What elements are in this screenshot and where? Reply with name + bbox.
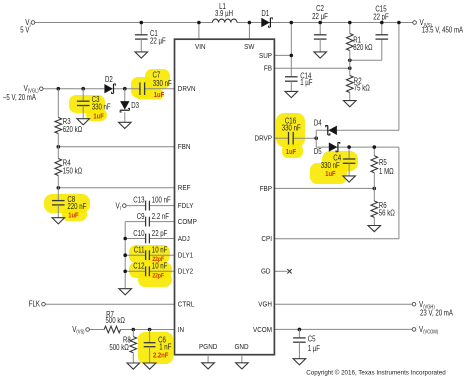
svg-text:DLY2: DLY2	[178, 267, 193, 276]
terminal VI reference	[116, 201, 127, 212]
diode D1	[261, 9, 272, 27]
svg-text:COMP: COMP	[178, 217, 197, 226]
capacitor C2	[312, 4, 328, 52]
resistor R2	[346, 68, 369, 100]
terminal VGL output	[3, 84, 43, 102]
svg-text:DLY1: DLY1	[178, 251, 193, 260]
svg-text:330 nF: 330 nF	[153, 79, 172, 88]
svg-text:1uF: 1uF	[68, 210, 79, 219]
svg-text:FB: FB	[264, 64, 272, 73]
capacitor C1	[135, 21, 166, 52]
svg-text:500 kΩ: 500 kΩ	[109, 343, 129, 352]
wire SUP pin	[274, 54, 293, 58]
svg-text:C10: C10	[133, 229, 145, 238]
svg-text:2.2 nF: 2.2 nF	[152, 212, 169, 221]
wire GD pin	[274, 270, 287, 272]
svg-text:1 µF: 1 µF	[308, 344, 320, 353]
svg-text:620 kΩ: 620 kΩ	[63, 125, 83, 134]
wire REF row	[57, 186, 175, 190]
svg-text:3.9 µH: 3.9 µH	[215, 9, 233, 18]
diode D3	[120, 89, 139, 123]
svg-text:VIN: VIN	[195, 42, 206, 51]
inductor L1	[212, 2, 237, 23]
svg-text:REF: REF	[178, 183, 191, 192]
svg-text:DRVP: DRVP	[255, 134, 273, 143]
svg-text:330 nF: 330 nF	[92, 102, 111, 111]
capacitor C8	[52, 188, 86, 220]
ground under C5	[293, 359, 306, 365]
wire FBP pin	[274, 187, 376, 191]
svg-text:1uF: 1uF	[93, 111, 104, 120]
svg-text:D1: D1	[261, 9, 269, 18]
node SW column	[248, 21, 252, 40]
copyright note	[306, 369, 446, 377]
highlight C3	[69, 95, 107, 121]
capacitor C11	[134, 246, 168, 263]
svg-text:CTRL: CTRL	[178, 300, 195, 309]
capacitor C7	[140, 70, 172, 99]
wire FB pin to R1/R2 junction	[274, 66, 351, 70]
resistor R5	[371, 145, 394, 188]
svg-text:150 kΩ: 150 kΩ	[63, 166, 83, 175]
svg-text:1uF: 1uF	[286, 147, 297, 156]
svg-text:Copyright © 2016, Texas Instru: Copyright © 2016, Texas Instruments Inco…	[306, 369, 446, 377]
resistor R7	[104, 310, 125, 333]
capacitor C14	[285, 72, 313, 92]
svg-text:1 µF: 1 µF	[300, 78, 312, 87]
terminal VS feedback	[72, 325, 89, 336]
ground under R8	[127, 363, 140, 369]
svg-text:SUP: SUP	[259, 51, 272, 60]
svg-text:C5: C5	[308, 335, 316, 344]
node VIN column	[197, 21, 201, 40]
wire DLY2 row	[123, 270, 174, 274]
no-connect X on GD	[287, 269, 291, 273]
svg-text:–5 V, 20 mA: –5 V, 20 mA	[3, 93, 37, 102]
svg-text:500 kΩ: 500 kΩ	[106, 316, 126, 325]
wire DRVN row	[43, 87, 174, 91]
highlight C4	[310, 151, 358, 184]
svg-text:CPI: CPI	[261, 234, 272, 243]
svg-text:C13: C13	[133, 195, 144, 204]
svg-text:GND: GND	[234, 342, 248, 351]
ground under C6	[143, 363, 156, 369]
highlight C6	[138, 332, 173, 364]
ground GND pin	[236, 355, 249, 369]
capacitor C12	[133, 262, 167, 280]
wire COMP row	[125, 221, 174, 223]
capacitor C4	[321, 145, 356, 178]
svg-text:D4: D4	[314, 119, 322, 128]
capacitor C3	[77, 89, 111, 121]
highlight C11	[129, 245, 170, 263]
svg-text:820 kΩ: 820 kΩ	[353, 43, 373, 52]
highlight C8	[44, 194, 90, 221]
svg-text:IN: IN	[178, 325, 184, 334]
terminal VGH output	[412, 300, 453, 318]
highlight C16	[276, 113, 305, 158]
wire IN row	[89, 328, 174, 332]
svg-text:1uF: 1uF	[325, 169, 336, 178]
svg-text:22 pF: 22 pF	[152, 229, 168, 238]
capacitor C15	[373, 5, 389, 39]
highlight C7	[131, 69, 170, 100]
svg-text:C9: C9	[137, 212, 145, 221]
svg-text:1uF: 1uF	[154, 90, 165, 99]
ground under D3	[119, 122, 132, 128]
ground under C2	[314, 52, 327, 58]
wire CTRL row	[45, 303, 174, 305]
ground under C14	[285, 91, 298, 97]
node charge pump	[315, 130, 317, 147]
diode D2	[104, 75, 115, 93]
svg-text:10 nF: 10 nF	[152, 246, 168, 255]
svg-text:FDLY: FDLY	[178, 201, 194, 210]
svg-text:GD: GD	[261, 267, 271, 276]
wire SUP vertical	[290, 21, 294, 77]
resistor R4	[55, 158, 82, 175]
wire FBN row	[57, 145, 175, 149]
svg-text:75 kΩ: 75 kΩ	[354, 84, 370, 93]
terminal FLK input	[29, 299, 46, 308]
wire VCOM row	[274, 328, 412, 332]
wire VGH row	[274, 303, 412, 305]
wire C15 bottom link	[348, 39, 382, 62]
ground under C3	[77, 119, 90, 125]
wire R4 column	[57, 147, 59, 188]
capacitor C9	[137, 212, 169, 226]
capacitor C5	[293, 329, 320, 358]
diode D5	[314, 142, 340, 156]
wire ADJ row	[123, 237, 174, 241]
svg-text:DRVN: DRVN	[178, 84, 196, 93]
wire D5 output to CPI	[274, 147, 399, 239]
svg-text:2.2nF: 2.2nF	[153, 351, 169, 360]
svg-text:FLK: FLK	[29, 299, 41, 308]
svg-text:1 MΩ: 1 MΩ	[379, 167, 394, 176]
svg-text:VGH: VGH	[258, 300, 272, 309]
ground under C4	[343, 176, 356, 182]
svg-text:D5: D5	[314, 147, 322, 156]
capacitor C13	[133, 195, 171, 210]
terminal VS output	[413, 18, 464, 34]
ground PGND pin	[202, 355, 215, 369]
wire DRVP pin	[274, 136, 318, 140]
svg-text:22 µF: 22 µF	[312, 12, 328, 21]
svg-text:22 µF: 22 µF	[150, 36, 166, 45]
svg-text:22pF: 22pF	[152, 273, 164, 279]
ground under C8	[52, 218, 65, 224]
wire FDLY row	[126, 205, 174, 207]
svg-text:R5: R5	[379, 158, 387, 167]
resistor R1	[346, 21, 372, 68]
diode D4	[314, 119, 337, 135]
resistor R3	[55, 117, 82, 134]
ground under bypass bus	[119, 289, 132, 295]
svg-text:FBP: FBP	[260, 184, 272, 193]
svg-text:VCOM: VCOM	[253, 325, 272, 334]
wire DLY1 row	[123, 253, 174, 257]
capacitor C16	[282, 116, 301, 156]
svg-text:10 nF: 10 nF	[152, 262, 168, 271]
capacitor C6	[144, 330, 172, 364]
terminal VCOM output	[412, 325, 438, 336]
svg-text:13.5 V, 450 mA: 13.5 V, 450 mA	[422, 26, 464, 35]
svg-text:D3: D3	[131, 101, 139, 110]
highlight C12	[129, 262, 172, 287]
wire D4 branch from VS rail	[316, 21, 401, 131]
svg-text:56 kΩ: 56 kΩ	[379, 208, 395, 217]
svg-text:22 pF: 22 pF	[373, 13, 389, 22]
terminal VI input	[20, 18, 35, 34]
capacitor C10	[133, 229, 167, 243]
svg-text:5 V: 5 V	[20, 25, 30, 34]
ground under C1	[135, 52, 148, 58]
svg-text:330 nF: 330 nF	[282, 124, 301, 133]
svg-text:ADJ: ADJ	[178, 234, 190, 243]
wire R3 column	[57, 89, 59, 147]
resistor R8	[109, 330, 136, 364]
svg-text:D2: D2	[105, 75, 113, 84]
svg-text:100 nF: 100 nF	[152, 195, 171, 204]
svg-text:PGND: PGND	[199, 342, 217, 351]
svg-text:23 V, 20 mA: 23 V, 20 mA	[420, 308, 454, 317]
wire bypass ground bus	[124, 222, 126, 289]
resistor R6	[371, 188, 395, 225]
svg-text:FBN: FBN	[178, 142, 191, 151]
IC U1 TPS65150	[175, 39, 275, 355]
wire top rail from VI input to VS output	[35, 22, 413, 24]
svg-text:SW: SW	[244, 42, 254, 51]
ground under R2	[344, 101, 357, 107]
svg-text:C12: C12	[133, 262, 144, 271]
ground under R6	[368, 226, 381, 232]
svg-text:C11: C11	[134, 246, 145, 255]
